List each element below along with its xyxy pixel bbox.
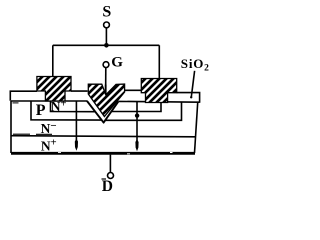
substrate bottom edge [11,152,195,155]
body left edge [10,101,12,153]
region N+ right boundary [111,102,161,112]
wire SiO2 leader line [191,71,194,97]
svg-text:S: S [102,4,111,21]
surface line right of groove [118,100,199,103]
drain wire [109,155,111,173]
region P right boundary [105,102,182,120]
svg-text:P: P [36,102,46,119]
svg-text:SiO2: SiO2 [181,56,210,73]
oxide SiO2 mid-right segment [125,89,142,91]
scan dash near left edge [13,102,19,104]
svg-text:N−: N− [41,120,57,136]
source contact right [141,79,176,103]
wire source horizontal [53,44,160,46]
node junction dot on right arrow [135,113,139,117]
scan dashes above N-/N+ boundary [13,133,52,135]
node S terminal circle [104,22,110,28]
wire right drop [158,45,160,78]
bottom edge speckles [58,153,173,154]
wire gate [105,68,107,97]
oxide SiO2 right segment [177,93,200,103]
region P left box [31,101,102,120]
svg-text:G: G [111,55,123,71]
wire left drop [52,45,54,76]
oxide SiO2 mid-left segment [71,90,88,92]
region N+ left box [51,101,97,112]
svg-text:N+: N+ [41,138,57,154]
source contact left [37,77,71,102]
body right edge [195,103,198,153]
scan dash above D [102,178,107,180]
node D terminal circle [108,173,114,179]
node S junction dot [104,43,109,48]
arrow current left [75,101,77,140]
svg-text:D: D [102,178,113,195]
boundary N-/N+ layer line [11,136,196,137]
wire gate into notch [105,85,107,95]
surface line left of groove [11,100,87,102]
oxide leader dot [190,96,192,98]
wire S vertical [105,28,107,44]
node G terminal circle [103,62,109,68]
groove V outline (silicon etch) [87,101,118,123]
oxide SiO2 left segment [10,91,37,101]
gate metal chevron [88,84,124,116]
arrow current right [136,102,138,141]
